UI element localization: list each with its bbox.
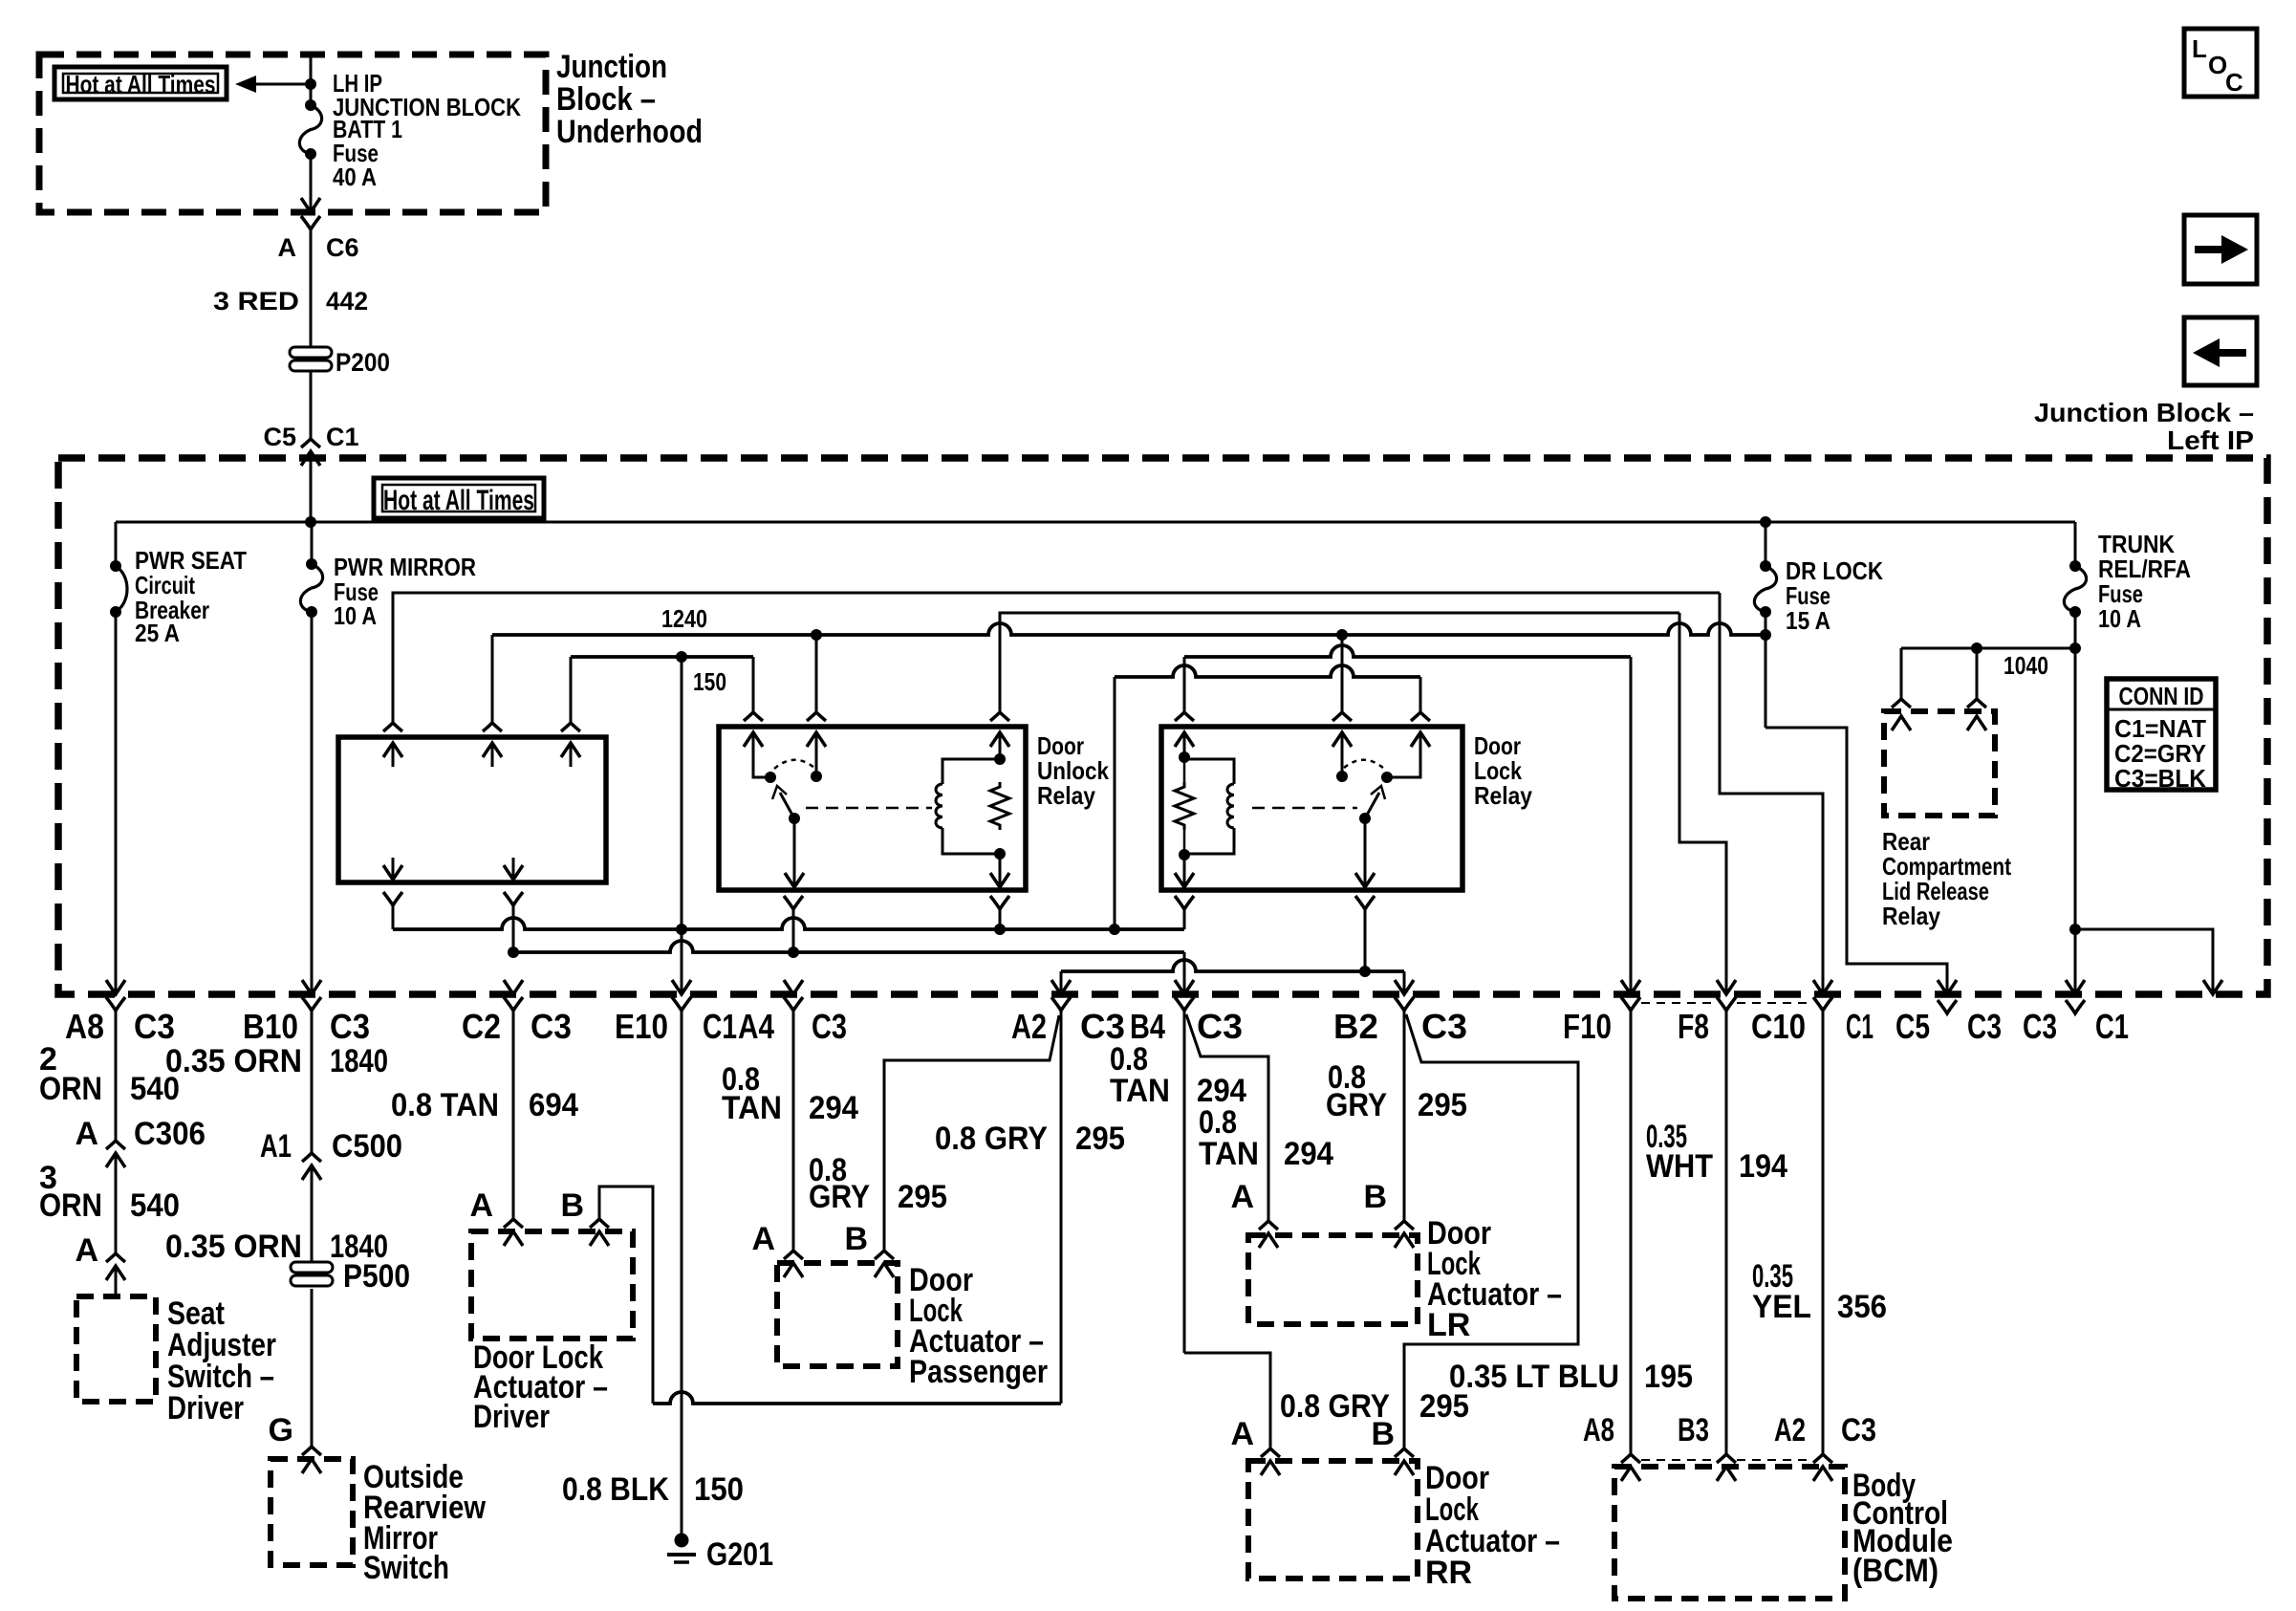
svg-text:WHT: WHT: [1646, 1148, 1713, 1185]
svg-text:Relay: Relay: [1037, 781, 1095, 810]
svg-text:RR: RR: [1425, 1555, 1472, 1591]
svg-text:Relay: Relay: [1474, 781, 1532, 810]
svg-text:Block –: Block –: [556, 81, 656, 118]
svg-text:B4: B4: [1130, 1007, 1165, 1046]
svg-text:195: 195: [1644, 1359, 1693, 1395]
svg-text:C3: C3: [1080, 1007, 1125, 1046]
svg-text:A: A: [1230, 1179, 1254, 1215]
svg-text:15 A: 15 A: [1786, 606, 1830, 635]
svg-text:A2: A2: [1011, 1007, 1047, 1046]
svg-text:G201: G201: [706, 1536, 773, 1573]
svg-text:(BCM): (BCM): [1852, 1553, 1939, 1589]
svg-text:C3: C3: [1841, 1412, 1876, 1448]
svg-text:GRY: GRY: [809, 1179, 870, 1215]
svg-text:C3: C3: [1197, 1007, 1243, 1046]
svg-text:Junction: Junction: [556, 49, 667, 85]
svg-text:YEL: YEL: [1752, 1289, 1811, 1325]
svg-text:1240: 1240: [661, 604, 707, 633]
svg-text:B: B: [1371, 1416, 1395, 1452]
svg-text:C3: C3: [812, 1007, 847, 1046]
svg-text:1040: 1040: [2004, 651, 2048, 680]
svg-text:150: 150: [693, 667, 726, 696]
svg-text:C5: C5: [1895, 1007, 1930, 1046]
svg-text:B2: B2: [1333, 1007, 1378, 1046]
svg-text:C500: C500: [332, 1128, 402, 1165]
svg-text:C3: C3: [1421, 1007, 1467, 1046]
svg-text:C306: C306: [134, 1116, 206, 1152]
svg-text:540: 540: [130, 1187, 180, 1224]
svg-text:TAN: TAN: [1199, 1136, 1259, 1172]
svg-text:295: 295: [898, 1179, 947, 1215]
svg-text:194: 194: [1739, 1148, 1787, 1185]
svg-text:Driver: Driver: [167, 1390, 244, 1426]
svg-text:294: 294: [1284, 1136, 1333, 1172]
svg-text:B: B: [560, 1187, 584, 1224]
svg-text:Driver: Driver: [473, 1399, 550, 1435]
svg-text:C6: C6: [326, 233, 359, 262]
svg-text:C3: C3: [134, 1007, 175, 1046]
svg-text:Hot at All Times: Hot at All Times: [66, 70, 216, 98]
svg-text:10 A: 10 A: [2098, 604, 2141, 633]
svg-text:Relay: Relay: [1882, 902, 1940, 930]
svg-text:0.35 ORN: 0.35 ORN: [165, 1043, 302, 1079]
svg-text:150: 150: [694, 1471, 744, 1508]
svg-text:3 RED: 3 RED: [213, 287, 299, 316]
svg-text:Left IP: Left IP: [2167, 425, 2254, 455]
svg-text:C3=BLK: C3=BLK: [2114, 764, 2206, 793]
svg-text:25 A: 25 A: [135, 619, 180, 647]
svg-text:A: A: [751, 1221, 775, 1257]
svg-text:295: 295: [1419, 1388, 1469, 1425]
svg-text:C1: C1: [2095, 1007, 2129, 1046]
svg-text:40 A: 40 A: [333, 163, 377, 191]
svg-text:A: A: [75, 1116, 98, 1152]
svg-text:CONN ID: CONN ID: [2119, 682, 2204, 710]
svg-text:A1: A1: [260, 1128, 292, 1165]
svg-text:B: B: [844, 1221, 868, 1257]
svg-text:P200: P200: [336, 348, 390, 377]
svg-text:LR: LR: [1427, 1307, 1470, 1343]
svg-text:C5: C5: [263, 423, 296, 451]
svg-text:Junction Block –: Junction Block –: [2034, 398, 2254, 427]
svg-text:10 A: 10 A: [334, 601, 377, 630]
svg-text:TAN: TAN: [722, 1090, 782, 1126]
svg-text:C3: C3: [531, 1007, 572, 1046]
svg-text:P500: P500: [343, 1258, 410, 1295]
svg-text:1840: 1840: [330, 1043, 388, 1079]
svg-text:Hot at All Times: Hot at All Times: [383, 485, 534, 516]
svg-text:ORN: ORN: [39, 1071, 102, 1107]
svg-text:Passenger: Passenger: [909, 1354, 1048, 1390]
svg-text:A: A: [278, 233, 297, 262]
svg-text:A2: A2: [1774, 1412, 1806, 1448]
svg-text:0.8 BLK: 0.8 BLK: [562, 1471, 669, 1508]
svg-text:B: B: [1363, 1179, 1387, 1215]
svg-text:C3: C3: [1967, 1007, 2002, 1046]
svg-text:295: 295: [1418, 1087, 1467, 1123]
svg-text:0.35 LT BLU: 0.35 LT BLU: [1449, 1359, 1619, 1395]
svg-text:C3: C3: [330, 1007, 370, 1046]
svg-text:C2: C2: [462, 1007, 501, 1046]
svg-text:A: A: [75, 1232, 98, 1269]
svg-text:C3: C3: [2023, 1007, 2057, 1046]
svg-text:Underhood: Underhood: [556, 114, 703, 150]
svg-text:294: 294: [809, 1090, 858, 1126]
svg-text:L: L: [2192, 34, 2207, 63]
svg-text:A4: A4: [738, 1007, 774, 1046]
svg-text:G: G: [269, 1412, 293, 1448]
svg-text:C: C: [2225, 68, 2243, 97]
svg-text:0.35 ORN: 0.35 ORN: [165, 1229, 302, 1265]
svg-text:F8: F8: [1678, 1007, 1709, 1046]
svg-text:356: 356: [1837, 1289, 1887, 1325]
svg-text:694: 694: [529, 1087, 578, 1123]
svg-text:C10: C10: [1751, 1007, 1806, 1046]
svg-text:B3: B3: [1678, 1412, 1709, 1448]
svg-text:A8: A8: [1583, 1412, 1614, 1448]
svg-text:B10: B10: [243, 1007, 298, 1046]
svg-text:0.8 GRY: 0.8 GRY: [935, 1121, 1048, 1157]
svg-text:GRY: GRY: [1326, 1087, 1387, 1123]
svg-text:A: A: [1230, 1416, 1254, 1452]
svg-text:C1: C1: [326, 423, 359, 451]
svg-text:A: A: [469, 1187, 493, 1224]
svg-text:Switch: Switch: [363, 1550, 449, 1586]
svg-text:C1: C1: [1846, 1007, 1874, 1046]
svg-text:A8: A8: [65, 1007, 104, 1046]
svg-text:295: 295: [1075, 1121, 1125, 1157]
svg-text:C1: C1: [703, 1007, 737, 1046]
svg-text:E10: E10: [615, 1007, 668, 1046]
svg-text:0.8 TAN: 0.8 TAN: [391, 1087, 499, 1123]
svg-text:TAN: TAN: [1110, 1073, 1170, 1109]
svg-text:F10: F10: [1563, 1007, 1612, 1046]
svg-text:442: 442: [326, 287, 368, 316]
svg-text:ORN: ORN: [39, 1187, 102, 1224]
